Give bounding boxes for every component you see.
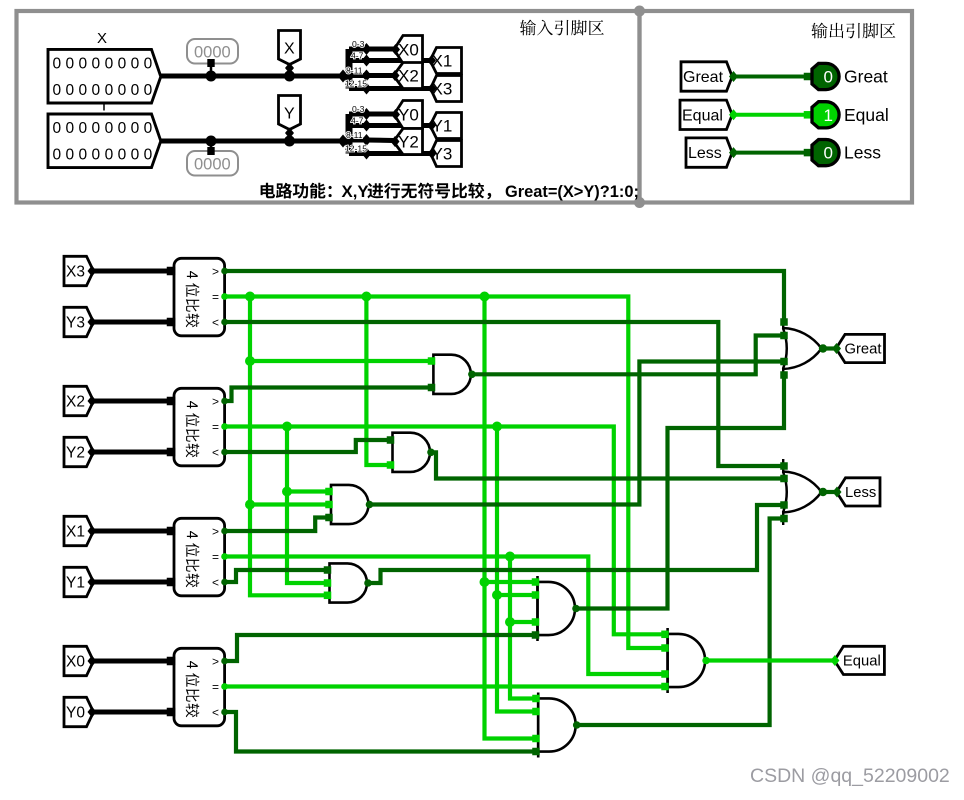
svg-text:8-11: 8-11 bbox=[346, 130, 363, 140]
svg-text:12-15: 12-15 bbox=[345, 144, 367, 154]
bus X junction at probe bbox=[206, 71, 217, 82]
net E3 branch vertical x250 bbox=[250, 297, 328, 596]
AND gate A2 (E3 AND L2) bbox=[393, 433, 430, 472]
svg-text:<: < bbox=[212, 576, 219, 590]
net A3 out to OR O1 input 3 bbox=[369, 362, 785, 505]
wire tunnel Great to output pin bbox=[732, 75, 809, 79]
AND gate A4 (E3 E2 L1) bbox=[330, 563, 367, 602]
svg-text:=: = bbox=[212, 290, 219, 304]
net Great: O1 out to tunnel Great bbox=[822, 346, 837, 350]
net E3 branch vertical x366 to A2 input 2 bbox=[366, 297, 392, 466]
tunnel Great (right area source) bbox=[681, 62, 732, 91]
bus wire X0 to U4 input A bbox=[94, 659, 175, 664]
splitter X (16-bit to 4x4) bbox=[346, 49, 353, 89]
tunnel Y connection diamond bbox=[285, 128, 294, 139]
net E2 branch vertical x287 to A4 input 2 bbox=[287, 427, 328, 584]
svg-text:Less: Less bbox=[688, 145, 722, 162]
svg-text:X3: X3 bbox=[66, 264, 85, 281]
svg-text:Y2: Y2 bbox=[398, 132, 419, 151]
comparator U4 output pins bbox=[221, 658, 228, 665]
net Less: O2 out to tunnel Less bbox=[822, 490, 837, 494]
label output pin area (Chinese) bbox=[811, 23, 895, 39]
svg-text:0: 0 bbox=[824, 144, 833, 163]
net L0: U4 < to A7 input 4 bbox=[225, 712, 539, 752]
svg-text:00000000: 00000000 bbox=[53, 147, 157, 164]
input pin X (16-bit) body bbox=[48, 49, 161, 103]
bus wire X1 to U3 input A bbox=[94, 529, 175, 534]
tunnel Y3 bbox=[431, 141, 462, 167]
comparator U3 output pins bbox=[221, 528, 228, 535]
OR gate O1 (Great) bbox=[782, 316, 784, 330]
svg-text:=: = bbox=[212, 550, 219, 564]
tunnel Equal (right area source) bbox=[680, 100, 732, 129]
net A1 out to OR O1 input 2 bbox=[471, 336, 784, 375]
bus X end diamond at splitter bbox=[338, 70, 349, 83]
net E3 trunk: U1 = to A6 input 2 bbox=[225, 297, 665, 649]
bus wire X from input pin to splitter bbox=[161, 74, 345, 79]
bus wire Y3 to U1 input B bbox=[94, 320, 175, 325]
svg-text:X: X bbox=[284, 41, 295, 58]
tunnel X (down-pointing) bbox=[279, 31, 301, 65]
wire tunnel Equal to output pin bbox=[732, 113, 809, 117]
svg-text:>: > bbox=[212, 395, 219, 409]
net Equal: A6 out to tunnel Equal bbox=[705, 658, 834, 662]
probe Y connection stub bbox=[207, 147, 214, 155]
svg-text:X2: X2 bbox=[66, 394, 85, 411]
svg-text:Y: Y bbox=[284, 106, 295, 123]
label input pin area (Chinese) bbox=[520, 20, 604, 36]
svg-text:4-7: 4-7 bbox=[351, 116, 364, 126]
net E2 branch vertical x495 to A7 input 2 bbox=[497, 427, 538, 712]
net E1 branch vertical x509 to A7 input 1 bbox=[510, 557, 538, 699]
net E1 trunk: U3 = to A6 input 3 bbox=[225, 557, 665, 675]
svg-text:Y1: Y1 bbox=[66, 575, 85, 592]
tunnel Y1 bbox=[64, 567, 94, 596]
net G0: U4 > to A5 input 4 bbox=[225, 635, 538, 661]
input pin area border box bbox=[17, 11, 640, 203]
net E3 branch to A3 input 2 bbox=[250, 502, 331, 506]
border junction dot top bbox=[634, 6, 645, 17]
bus X junction at tunnel X bbox=[284, 71, 295, 82]
net E2 trunk: U2 = to A6 input 1 bbox=[225, 427, 665, 635]
svg-text:=: = bbox=[212, 680, 219, 694]
tunnel Y0 bbox=[64, 697, 94, 726]
junctions on net E1 bbox=[505, 552, 515, 562]
border junction dot bottom bbox=[634, 197, 645, 208]
comparator U1 output pins bbox=[221, 268, 228, 275]
tunnel Less (sink) bbox=[837, 478, 881, 506]
tunnel Equal (sink) bbox=[834, 646, 884, 674]
svg-text:X1: X1 bbox=[66, 524, 85, 541]
svg-text:0000: 0000 bbox=[194, 156, 231, 174]
tunnel X1 bbox=[430, 48, 462, 74]
tunnel X0 bbox=[394, 36, 423, 64]
net L1: U3 < to A4 input 1 bbox=[225, 570, 330, 582]
svg-text:00000000: 00000000 bbox=[53, 120, 157, 137]
bus wire X2 to U2 input A bbox=[94, 399, 175, 404]
tunnel Y0 bbox=[394, 101, 423, 129]
net L2: U2 < to A2 input 1 bbox=[225, 440, 393, 452]
svg-text:8-11: 8-11 bbox=[346, 66, 363, 76]
tunnel X1 bbox=[64, 516, 94, 545]
net A4 out to OR O2 input 3 bbox=[367, 505, 784, 583]
bus wire Y2 to U2 input B bbox=[94, 450, 175, 455]
svg-text:<: < bbox=[212, 446, 219, 460]
junctions on net E3 bbox=[245, 292, 255, 302]
svg-text:00000000: 00000000 bbox=[53, 82, 157, 99]
bus wire X3 to U1 input A bbox=[94, 269, 175, 274]
svg-text:=: = bbox=[212, 420, 219, 434]
bus Y junction at tunnel Y bbox=[284, 136, 295, 147]
output pin Equal value 1 bbox=[812, 102, 839, 128]
svg-text:Less: Less bbox=[844, 143, 881, 163]
svg-text:Great: Great bbox=[845, 342, 882, 358]
caption circuit function (Chinese + formula) bbox=[261, 183, 332, 199]
svg-text:4-7: 4-7 bbox=[351, 51, 364, 61]
tunnel X3 bbox=[431, 76, 462, 102]
net E3 branch to A5 input 1 bbox=[485, 580, 538, 584]
hex display probe X value 0000 bbox=[187, 39, 238, 64]
svg-text:Less: Less bbox=[845, 485, 876, 501]
output pin area border box bbox=[640, 11, 913, 203]
input pin X tick mark bbox=[103, 103, 105, 111]
svg-text:Y2: Y2 bbox=[66, 445, 85, 462]
svg-text:Y0: Y0 bbox=[398, 105, 419, 124]
tunnel X2 bbox=[64, 386, 94, 415]
svg-text:Equal: Equal bbox=[843, 654, 881, 670]
svg-text:>: > bbox=[212, 655, 219, 669]
tunnel Y3 bbox=[64, 307, 94, 336]
AND gate A1 (E3 AND G2) bbox=[433, 355, 470, 394]
svg-text:Great: Great bbox=[844, 67, 888, 87]
net E1 branch to A5 input 3 bbox=[510, 620, 538, 624]
AND gate A6 (Equal = E3 E2 E1 E0) bbox=[666, 628, 669, 693]
bus Y end diamond at splitter bbox=[338, 135, 349, 148]
comparator U1 (4-bit compare) bbox=[174, 258, 225, 336]
net E3 branch to A1 input 1 bbox=[250, 359, 433, 363]
svg-text:<: < bbox=[212, 316, 219, 330]
net E0: U4 = to A6 input 4 bbox=[225, 684, 668, 688]
comparator U4 (4-bit compare) bbox=[174, 648, 225, 726]
svg-text:X0: X0 bbox=[66, 654, 85, 671]
svg-text:CSDN @qq_52209002: CSDN @qq_52209002 bbox=[750, 765, 950, 787]
bus wire Y1 to U3 input B bbox=[94, 580, 175, 585]
net G3: U1 > to OR O1 input 1 bbox=[225, 271, 784, 322]
hex display probe Y value 0000 bbox=[187, 151, 238, 176]
net A7 out to OR O2 input 4 bbox=[576, 519, 784, 726]
svg-text:0-3: 0-3 bbox=[352, 104, 365, 114]
svg-text:Y3: Y3 bbox=[66, 315, 85, 332]
probe X connection stub bbox=[207, 59, 214, 67]
bus wire Y0 to U4 input B bbox=[94, 710, 175, 715]
svg-text:>: > bbox=[212, 265, 219, 279]
net G2: U2 > to A1 input 2 bbox=[225, 388, 434, 402]
tunnel Y2 bbox=[394, 129, 423, 155]
svg-text:X,Y: X,Y bbox=[342, 182, 369, 201]
svg-text:X: X bbox=[97, 30, 107, 47]
splitter Y leg wires to tunnels bbox=[367, 112, 395, 117]
comparator U2 (4-bit compare) bbox=[174, 388, 225, 466]
svg-text:>: > bbox=[212, 525, 219, 539]
tunnel Y2 bbox=[64, 437, 94, 466]
output pin Less value 0 bbox=[812, 140, 839, 166]
AND gate A3 (E3 E2 G1) bbox=[331, 485, 369, 524]
tunnel X connection diamond bbox=[285, 63, 294, 74]
tunnel Great (sink) bbox=[836, 334, 885, 362]
svg-text:0000: 0000 bbox=[194, 44, 231, 62]
net E2 branch to A5 input 2 bbox=[497, 593, 538, 597]
comparator U3 (4-bit compare) bbox=[174, 518, 225, 596]
tunnel Less (right area source) bbox=[686, 138, 732, 167]
svg-text:0: 0 bbox=[824, 68, 833, 87]
svg-text:X0: X0 bbox=[398, 40, 419, 59]
net G1: U3 > to A3 input 3 bbox=[225, 518, 331, 532]
tunnel Y1 bbox=[430, 113, 462, 139]
net A5 out to OR O1 input 4 bbox=[575, 375, 784, 609]
splitter Y (16-bit to 4x4) bbox=[346, 114, 353, 154]
wire tunnel Less to output pin bbox=[732, 151, 809, 155]
svg-text:00000000: 00000000 bbox=[53, 55, 157, 72]
tunnel X0 bbox=[64, 646, 94, 675]
svg-text:Y0: Y0 bbox=[66, 705, 85, 722]
tunnel X2 bbox=[394, 63, 423, 89]
junctions on net E2 bbox=[282, 422, 292, 432]
svg-text:<: < bbox=[212, 706, 219, 720]
output pin Great value 0 bbox=[812, 63, 839, 89]
svg-text:Equal: Equal bbox=[844, 105, 889, 125]
svg-text:1: 1 bbox=[824, 106, 833, 125]
splitter X leg wires to tunnels bbox=[367, 47, 395, 52]
OR gate O2 (Less) bbox=[782, 459, 784, 473]
tunnel Y (down-pointing) bbox=[279, 96, 301, 130]
AND gate A7 (E3 E2 E1 L0) bbox=[537, 693, 540, 758]
input pin Y (16-bit) body bbox=[48, 114, 161, 168]
net E3 branch vertical x484 to A5 input 1 and A7 input 3 bbox=[485, 297, 539, 739]
bus wire Y from input pin to splitter bbox=[161, 139, 345, 144]
net A2 out to OR O2 input 2 bbox=[430, 452, 784, 478]
comparator U2 output pins bbox=[221, 398, 228, 405]
svg-text:X2: X2 bbox=[398, 66, 419, 85]
net L3: U1 < to OR O2 input 1 bbox=[225, 322, 784, 466]
svg-text:Great=(X>Y)?1:0;: Great=(X>Y)?1:0; bbox=[505, 183, 639, 201]
svg-text:Equal: Equal bbox=[682, 107, 723, 124]
net E2 branch to A3 input 1 bbox=[287, 489, 331, 493]
tunnel X3 bbox=[64, 256, 94, 285]
bus Y junction at probe bbox=[206, 136, 217, 147]
svg-text:12-15: 12-15 bbox=[345, 79, 367, 89]
svg-text:0-3: 0-3 bbox=[352, 39, 365, 49]
svg-text:Great: Great bbox=[683, 69, 724, 86]
AND gate A5 (E3 E2 E1 G0) bbox=[536, 576, 539, 641]
